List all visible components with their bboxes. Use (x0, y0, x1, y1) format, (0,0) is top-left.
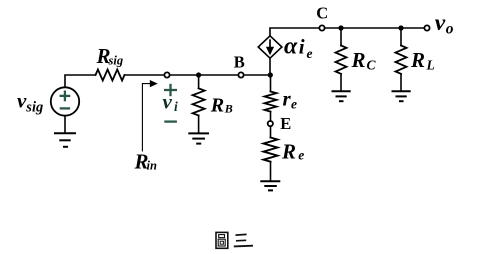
svg-text:R: R (351, 48, 366, 72)
svg-text:α: α (284, 33, 298, 59)
svg-text:i: i (299, 34, 305, 58)
svg-text:C: C (367, 58, 377, 73)
svg-text:C: C (316, 3, 328, 22)
svg-text:R: R (210, 94, 224, 116)
svg-text:E: E (280, 114, 291, 133)
svg-text:B: B (234, 52, 245, 71)
svg-text:sig: sig (25, 100, 43, 116)
svg-text:i: i (174, 99, 178, 114)
svg-text:e: e (298, 147, 304, 162)
svg-text:R: R (281, 139, 296, 163)
svg-text:e: e (291, 97, 297, 112)
svg-text:sig: sig (108, 54, 124, 68)
svg-text:L: L (426, 58, 435, 73)
svg-text:v: v (163, 90, 173, 114)
svg-text:e: e (307, 46, 313, 61)
svg-text:B: B (224, 101, 233, 115)
svg-text:v: v (435, 10, 446, 36)
svg-text:R: R (410, 48, 425, 72)
svg-text:o: o (446, 20, 454, 37)
svg-text:in: in (147, 159, 157, 173)
